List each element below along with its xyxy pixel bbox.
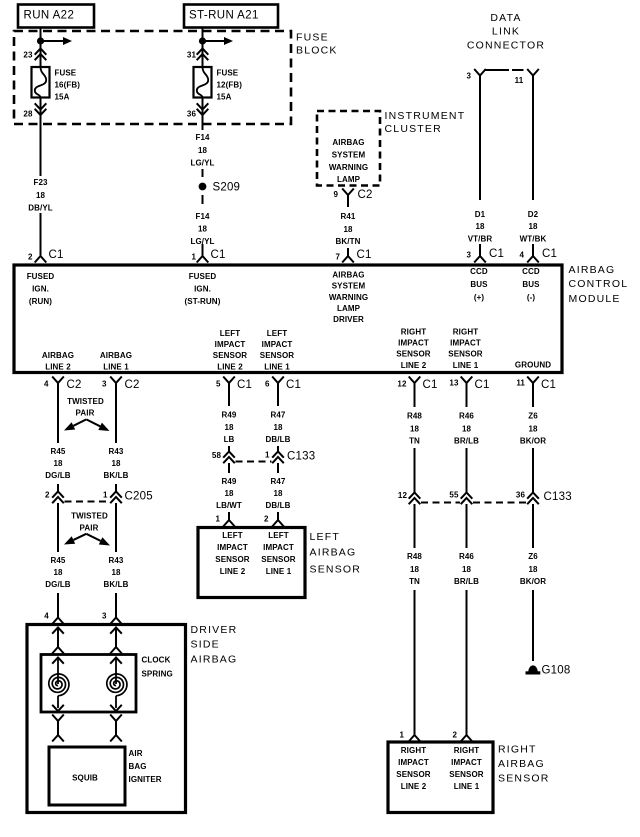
svg-text:SENSOR: SENSOR [215,555,250,564]
svg-text:IMPACT: IMPACT [215,340,246,349]
svg-text:LINE 1: LINE 1 [264,362,290,371]
svg-text:C1: C1 [286,379,301,391]
svg-text:WARNING: WARNING [329,163,368,172]
pin 28 connector [35,109,47,115]
arrow to other circuits (ST-RUN) [203,40,225,42]
switch box ST-RUN A21 [184,5,278,28]
svg-text:11: 11 [516,379,525,388]
clock spring box [41,655,136,713]
wire clock spring to squib left [52,715,64,726]
clock spring bottom chevron left [52,705,64,711]
svg-text:R48: R48 [407,552,422,561]
svg-text:BK/TN: BK/TN [336,237,361,246]
svg-text:18: 18 [273,423,283,432]
svg-text:WARNING: WARNING [329,293,368,302]
svg-text:18: 18 [111,568,121,577]
switch box RUN A22 [18,5,94,28]
svg-text:C1: C1 [49,249,64,261]
svg-text:IMPACT: IMPACT [398,758,429,767]
inner wire to clock spring left [52,628,64,634]
svg-text:LEFT: LEFT [267,329,287,338]
svg-text:1: 1 [191,253,196,262]
wire R45 C205 to driver airbag [57,503,59,614]
svg-text:VT/BR: VT/BR [468,234,493,243]
wire R46 C133 to right sensor [466,504,468,730]
svg-text:DATA: DATA [490,12,521,24]
svg-text:36: 36 [516,491,526,500]
svg-text:AIRBAG: AIRBAG [332,270,364,279]
svg-text:C1: C1 [357,249,372,261]
instrument cluster dashed box [317,111,380,186]
svg-text:CONNECTOR: CONNECTOR [467,40,545,52]
svg-text:C1: C1 [542,248,557,260]
svg-text:LAMP: LAMP [337,175,361,184]
connector C133 dashed link (left) [236,461,272,463]
svg-text:ST-RUN A21: ST-RUN A21 [189,9,259,21]
fuse block dashed outline [14,31,291,124]
svg-text:SYSTEM: SYSTEM [332,150,366,159]
svg-text:15A: 15A [55,92,70,101]
wire from ST-RUN A21 to fuse 12 (x=202.5) [202,27,204,67]
ACM pin 13 C1 connector [461,377,473,390]
svg-text:36: 36 [187,110,197,119]
svg-text:MODULE: MODULE [569,293,621,305]
clock spring coil right [115,657,117,684]
svg-text:2: 2 [452,731,457,740]
svg-text:18: 18 [475,222,485,231]
driver airbag pin 4 connector [52,611,64,624]
svg-text:BK/OR: BK/OR [520,436,546,445]
DLC pin 3 terminal [474,69,486,78]
driver side airbag box [27,625,186,813]
connector C133 pin 55 [461,493,473,499]
svg-text:DB/LB: DB/LB [266,435,291,444]
svg-text:RUN A22: RUN A22 [24,9,75,21]
twisted pair arrows lower [73,534,86,540]
svg-text:LINE 2: LINE 2 [45,362,71,371]
svg-text:18: 18 [410,565,420,574]
svg-text:18: 18 [111,459,121,468]
pin 36 connector [197,109,209,115]
svg-text:TWISTED: TWISTED [71,512,108,521]
svg-text:R47: R47 [271,410,286,419]
svg-text:AIRBAG: AIRBAG [191,654,238,666]
svg-text:LINE 1: LINE 1 [103,362,129,371]
svg-text:18: 18 [198,146,208,155]
inner wire to clock spring right [110,628,122,634]
connector C205 pin 1 [110,492,122,498]
svg-text:18: 18 [462,565,472,574]
svg-text:LG/YL: LG/YL [190,237,214,246]
svg-text:SYSTEM: SYSTEM [332,281,366,290]
svg-text:C1: C1 [489,248,504,260]
svg-text:1: 1 [399,731,404,740]
ACM pin 2 C1 connector [35,250,47,263]
ACM pin 6 C1 connector [272,377,284,390]
svg-text:4: 4 [44,380,49,389]
svg-text:IMPACT: IMPACT [263,543,294,552]
svg-text:R48: R48 [407,411,422,420]
svg-text:1: 1 [265,451,270,460]
svg-text:LINE 2: LINE 2 [401,361,427,370]
connector C205 pin 2 [52,492,64,498]
svg-text:F14: F14 [195,212,210,221]
ACM pin 5 C1 connector [223,377,235,390]
svg-text:R49: R49 [222,477,237,486]
svg-text:BUS: BUS [522,280,540,289]
svg-text:SIDE: SIDE [191,639,220,651]
svg-text:58: 58 [212,451,222,460]
svg-text:(+): (+) [474,293,485,302]
svg-text:CLOCK: CLOCK [142,656,171,665]
svg-text:SPRING: SPRING [142,670,173,679]
ground G108 [528,665,538,672]
svg-text:18: 18 [53,459,63,468]
wire R49 C133 to left sensor [228,463,230,521]
svg-text:Z6: Z6 [528,411,538,420]
svg-text:RIGHT: RIGHT [454,746,479,755]
svg-text:WT/BK: WT/BK [520,234,547,243]
DLC pin 11 terminal [527,69,539,78]
svg-text:DG/LB: DG/LB [45,580,71,589]
svg-text:1: 1 [103,491,108,500]
svg-text:18: 18 [53,568,63,577]
svg-text:3: 3 [102,612,107,621]
svg-text:3: 3 [466,72,471,81]
svg-text:CLUSTER: CLUSTER [385,123,442,135]
svg-text:23: 23 [23,51,33,60]
svg-text:PAIR: PAIR [80,524,99,533]
svg-text:SENSOR: SENSOR [498,773,550,785]
connector C133 pin 1 (left) [272,452,284,458]
wire clock spring to squib right [110,715,122,726]
driver airbag pin 3 connector [110,611,122,624]
wire R47 C133 to left sensor [277,463,279,521]
svg-text:18: 18 [36,191,46,200]
svg-text:IMPACT: IMPACT [217,543,248,552]
wire from fuse 16 down to ACM pin 2 C1 [40,98,42,253]
svg-text:CCD: CCD [522,267,540,276]
svg-text:LINK: LINK [492,26,520,38]
svg-text:18: 18 [528,424,538,433]
fuse F2 FUSE 12(FB) 15A [194,67,212,98]
svg-text:5: 5 [216,380,221,389]
wire R47 ACM to C133 [277,389,279,451]
svg-text:D1: D1 [475,210,486,219]
ACM pin 3 C2 connector [110,377,122,390]
svg-text:18: 18 [528,565,538,574]
splice S209 [199,183,207,191]
ACM pin 4 C1 connector [527,250,539,263]
ACM pin 11 C1 connector [527,377,539,390]
svg-text:S209: S209 [213,182,241,194]
svg-text:G108: G108 [542,665,571,677]
arrow to other circuits (RUN) [41,40,64,42]
svg-text:9: 9 [333,190,338,199]
svg-text:18: 18 [462,424,472,433]
svg-text:R49: R49 [222,410,237,419]
svg-text:31: 31 [187,51,197,60]
svg-text:C133: C133 [544,491,572,503]
svg-text:LEFT: LEFT [222,531,242,540]
wire R48 C133 to right sensor [414,504,416,730]
svg-text:BR/LB: BR/LB [454,436,479,445]
connector C133 pin 58 [223,452,235,458]
svg-text:(-): (-) [527,293,536,302]
svg-text:F23: F23 [33,178,48,187]
svg-text:(RUN): (RUN) [29,297,52,306]
svg-text:6: 6 [265,380,270,389]
svg-text:2: 2 [45,491,50,500]
wire R43 ACM to C205 [115,389,117,491]
connector C205 dashed link [65,501,110,503]
svg-text:CONTROL: CONTROL [569,278,629,290]
svg-text:18: 18 [410,424,420,433]
svg-text:3: 3 [466,251,471,260]
svg-text:LINE 2: LINE 2 [220,567,246,576]
svg-text:12: 12 [398,491,408,500]
svg-text:BAG: BAG [129,762,147,771]
svg-text:FUSE: FUSE [55,68,77,77]
svg-text:BK/LB: BK/LB [104,580,129,589]
ACM pin 12 C1 connector [409,377,421,390]
svg-text:28: 28 [23,110,33,119]
svg-text:R41: R41 [341,212,356,221]
svg-text:3: 3 [102,380,107,389]
svg-text:FUSE: FUSE [217,68,239,77]
svg-text:C1: C1 [475,379,490,391]
wire from fuse 12 down to ACM pin 1 C1 [202,98,204,131]
svg-text:LEFT: LEFT [220,329,240,338]
svg-text:18: 18 [224,423,234,432]
svg-text:AIRBAG: AIRBAG [100,351,132,360]
svg-text:C133: C133 [287,451,315,463]
svg-text:R46: R46 [459,552,474,561]
svg-text:AIRBAG: AIRBAG [332,138,364,147]
svg-text:2: 2 [264,515,269,524]
svg-text:IGNITER: IGNITER [129,775,162,784]
wire Z6 C133 to ground [532,504,534,661]
svg-text:SENSOR: SENSOR [260,351,295,360]
wire D1 from DLC pin 3 [479,76,481,252]
svg-text:2: 2 [28,253,33,262]
svg-text:C1: C1 [423,379,438,391]
svg-text:IMPACT: IMPACT [450,338,481,347]
svg-text:LINE 2: LINE 2 [217,362,243,371]
svg-text:18: 18 [528,222,538,231]
svg-text:12: 12 [397,380,407,389]
fuse F1 FUSE 16(FB) 15A [32,67,50,98]
svg-text:SENSOR: SENSOR [449,770,484,779]
svg-text:CCD: CCD [470,267,488,276]
svg-text:C2: C2 [125,379,140,391]
wire R41 from cluster to ACM pin 7 [347,201,349,252]
svg-text:AIRBAG: AIRBAG [42,351,74,360]
svg-text:DB/YL: DB/YL [28,203,53,212]
svg-text:C2: C2 [358,189,373,201]
wire Z6 ACM to C133 [532,389,534,492]
svg-text:IMPACT: IMPACT [451,758,482,767]
svg-text:LINE 2: LINE 2 [401,782,427,791]
DLC connector bar [485,69,510,71]
airbag control module box [14,265,562,373]
svg-text:SENSOR: SENSOR [213,351,248,360]
svg-text:DRIVER: DRIVER [191,624,238,636]
svg-text:C1: C1 [237,379,252,391]
svg-text:4: 4 [519,251,524,260]
connector C133 pin 12 [409,493,421,499]
junction dot on RUN A22 feed [37,37,44,44]
svg-text:4: 4 [44,612,49,621]
svg-text:18: 18 [224,489,234,498]
left sensor pin 2 connector [272,514,284,527]
wire R48 ACM to C133 [414,389,416,492]
svg-text:11: 11 [515,76,524,85]
svg-text:LINE 1: LINE 1 [266,567,292,576]
svg-text:AIR: AIR [129,749,143,758]
svg-text:GROUND: GROUND [515,361,551,370]
wire R46 ACM to C133 [466,389,468,492]
svg-text:SQUIB: SQUIB [72,774,98,783]
svg-text:FUSED: FUSED [27,272,55,281]
svg-text:LEFT: LEFT [268,531,288,540]
svg-text:C205: C205 [125,491,153,503]
svg-text:R45: R45 [51,556,66,565]
svg-text:C1: C1 [211,249,226,261]
wire R43 C205 to driver airbag [115,503,117,614]
svg-text:IMPACT: IMPACT [398,338,429,347]
svg-text:RIGHT: RIGHT [453,327,478,336]
svg-text:SENSOR: SENSOR [396,349,431,358]
left airbag sensor box [198,528,305,598]
svg-text:R43: R43 [109,447,124,456]
svg-text:Z6: Z6 [528,552,538,561]
svg-text:BUS: BUS [470,280,488,289]
svg-text:LB: LB [224,435,235,444]
clock spring bottom chevron right [110,705,122,711]
ACM pin 3 C1 connector [474,250,486,263]
svg-text:SENSOR: SENSOR [448,349,483,358]
svg-text:D2: D2 [528,210,539,219]
svg-text:TN: TN [409,436,420,445]
pin 23 connector [35,49,47,55]
svg-text:LINE 1: LINE 1 [453,361,479,370]
svg-text:RIGHT: RIGHT [401,327,426,336]
svg-text:C1: C1 [541,379,556,391]
svg-text:AIRBAG: AIRBAG [310,547,357,559]
right sensor pin 2 connector [461,729,473,742]
svg-text:IMPACT: IMPACT [262,340,293,349]
svg-text:55: 55 [449,491,459,500]
right airbag sensor box [388,742,493,813]
twisted pair arrows upper [73,419,86,425]
svg-text:PAIR: PAIR [76,409,95,418]
svg-text:7: 7 [335,253,340,262]
svg-text:SENSOR: SENSOR [396,770,431,779]
svg-text:LEFT: LEFT [310,531,340,543]
svg-text:LINE 1: LINE 1 [454,782,480,791]
svg-text:DRIVER: DRIVER [333,315,364,324]
left sensor pin 1 connector [223,514,235,527]
connector C133 pin 36 [527,493,539,499]
svg-text:F14: F14 [195,133,210,142]
svg-text:R45: R45 [51,447,66,456]
svg-text:C2: C2 [67,379,82,391]
svg-text:TWISTED: TWISTED [67,397,104,406]
svg-text:SENSOR: SENSOR [310,564,362,576]
svg-text:18: 18 [198,224,208,233]
svg-text:FUSE: FUSE [296,32,329,44]
svg-text:18: 18 [273,489,283,498]
svg-text:RIGHT: RIGHT [498,744,537,756]
svg-text:R43: R43 [109,556,124,565]
svg-text:R46: R46 [459,411,474,420]
svg-text:RIGHT: RIGHT [401,746,426,755]
squib box [49,747,125,805]
svg-text:LAMP: LAMP [337,304,361,313]
svg-text:1: 1 [215,515,220,524]
ACM pin 4 C2 connector [52,377,64,390]
wire from RUN A22 to fuse 16 (x=40.5) [40,27,42,67]
pin 31 connector [197,49,209,55]
wire D2 from DLC pin 11 [532,76,534,252]
connector C133 dashed links (right) [421,502,460,504]
svg-text:13: 13 [449,379,459,388]
connector 9 C2 at cluster [342,189,354,202]
svg-text:DB/LB: DB/LB [266,501,291,510]
wire R49 ACM to C133 [228,389,230,451]
svg-text:18: 18 [343,225,353,234]
svg-text:16(FB): 16(FB) [55,80,81,89]
svg-text:INSTRUMENT: INSTRUMENT [385,110,466,122]
svg-text:LB/WT: LB/WT [216,501,242,510]
svg-text:SENSOR: SENSOR [261,555,296,564]
svg-text:BK/OR: BK/OR [520,577,546,586]
svg-text:IGN.: IGN. [32,284,49,293]
svg-text:BK/LB: BK/LB [104,471,129,480]
svg-text:(ST-RUN): (ST-RUN) [185,297,221,306]
svg-text:BR/LB: BR/LB [454,577,479,586]
svg-text:DG/LB: DG/LB [45,471,71,480]
svg-text:AIRBAG: AIRBAG [498,758,545,770]
svg-text:FUSED: FUSED [189,272,217,281]
svg-text:12(FB): 12(FB) [217,80,243,89]
wire R45 ACM to C205 [57,389,59,491]
right sensor pin 1 connector [409,729,421,742]
ACM pin 1 C1 connector [197,250,209,263]
junction dot on ST-RUN A21 feed [199,37,206,44]
ACM pin 7 C1 connector [342,250,354,263]
clock spring coil left [57,657,59,684]
svg-text:IGN.: IGN. [194,284,211,293]
svg-text:15A: 15A [217,92,232,101]
svg-text:AIRBAG: AIRBAG [569,264,616,276]
svg-text:BLOCK: BLOCK [296,45,338,57]
svg-text:R47: R47 [271,477,286,486]
svg-text:TN: TN [409,577,420,586]
svg-text:LG/YL: LG/YL [190,158,214,167]
